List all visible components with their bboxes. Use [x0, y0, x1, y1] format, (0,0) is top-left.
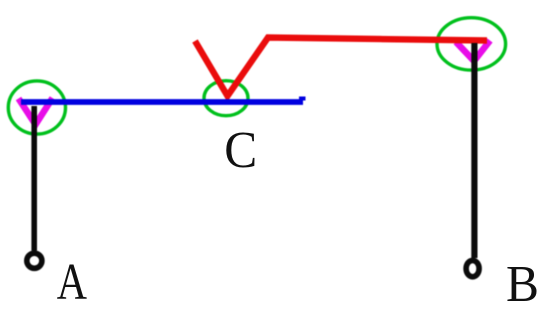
pendulum string A: [31, 106, 37, 251]
pendulum string B: [471, 43, 477, 258]
pivot ellipse (right, at B support): [437, 18, 506, 70]
pendulum bob B (ring): [466, 260, 479, 276]
pivot circle (middle, at C): [204, 81, 248, 116]
label A: [57, 254, 87, 311]
label B: [506, 255, 539, 312]
magenta V marker (left, at A support): [19, 98, 53, 125]
svg-text:B: B: [506, 255, 539, 312]
svg-text:C: C: [224, 121, 257, 178]
magenta V marker (right, at B support): [456, 41, 490, 62]
pendulum bob A (ring): [27, 253, 42, 268]
label C: [224, 121, 257, 178]
svg-text:A: A: [57, 254, 87, 311]
red path (V check then horizontal bar): [195, 38, 487, 97]
pivot circle (left, at A support): [8, 81, 65, 134]
blue horizontal line: [21, 97, 306, 103]
